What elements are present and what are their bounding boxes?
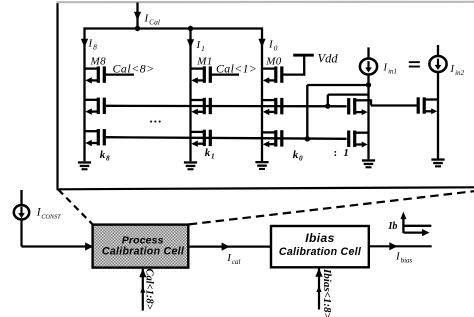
- svg-text:M1: M1: [196, 56, 212, 68]
- svg-text:0: 0: [299, 154, 303, 163]
- svg-text:in2: in2: [455, 69, 464, 77]
- svg-text:k: k: [293, 149, 299, 161]
- svg-text:Cal<1>: Cal<1>: [216, 61, 257, 75]
- svg-text:Ibias: Ibias: [305, 231, 335, 245]
- svg-text:...: ...: [150, 111, 163, 126]
- svg-text:k: k: [100, 149, 106, 161]
- svg-text:Cal<8>: Cal<8>: [113, 61, 155, 75]
- svg-text:8: 8: [93, 42, 97, 51]
- svg-text::: :: [334, 147, 338, 159]
- svg-text:1: 1: [201, 44, 205, 53]
- svg-text:8: 8: [106, 154, 110, 163]
- svg-text:I: I: [450, 64, 455, 75]
- svg-text:Vdd: Vdd: [318, 52, 339, 66]
- svg-text:Ibias<1:8>: Ibias<1:8>: [321, 268, 333, 317]
- svg-text:1: 1: [344, 148, 349, 159]
- svg-text:in1: in1: [388, 67, 397, 75]
- svg-text:Calibration Cell: Calibration Cell: [102, 246, 185, 258]
- svg-text:CONST: CONST: [41, 213, 61, 220]
- svg-text:0: 0: [274, 43, 278, 52]
- svg-text:cal: cal: [232, 258, 241, 266]
- svg-text:k: k: [205, 147, 211, 159]
- svg-text:Calibration Cell: Calibration Cell: [279, 246, 362, 258]
- svg-text:Cal<1:8>: Cal<1:8>: [144, 269, 155, 310]
- svg-text:M8: M8: [90, 56, 107, 68]
- svg-text:Ib: Ib: [388, 221, 398, 232]
- svg-text:bias: bias: [401, 256, 413, 264]
- svg-text:1: 1: [211, 152, 215, 161]
- svg-text:I: I: [383, 63, 388, 74]
- svg-text:M0: M0: [265, 56, 281, 68]
- svg-text:Cal: Cal: [149, 17, 160, 26]
